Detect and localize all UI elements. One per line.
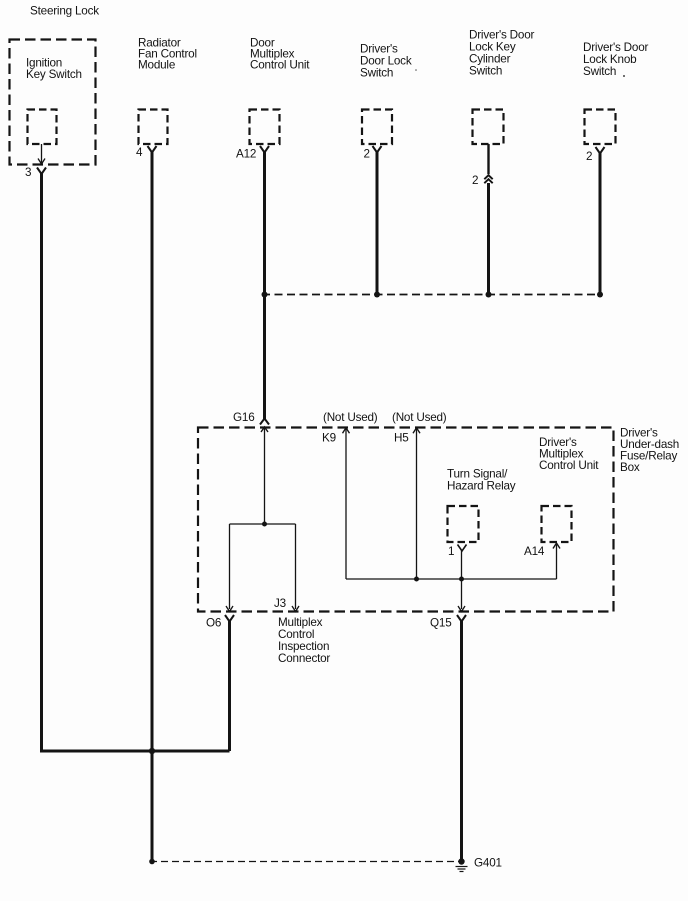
node junction radiator ground <box>149 859 155 865</box>
terminal fork at G16 <box>260 419 269 425</box>
wire Q15 down to ground <box>460 621 463 862</box>
svg-text:Module: Module <box>138 59 175 72</box>
ground G401 symbol <box>456 867 468 872</box>
connector door multiplex control unit <box>250 110 280 145</box>
connector driver's door lock switch <box>362 110 392 145</box>
wire K9 not used <box>343 428 350 579</box>
label Door Multiplex Control Unit <box>250 37 310 72</box>
wire radiator fan down <box>151 152 154 862</box>
node junction door lock switch bus <box>374 292 380 298</box>
connector driver's door lock knob switch <box>585 110 616 145</box>
svg-text:Switch: Switch <box>469 65 502 78</box>
label Driver's Door Lock Knob Switch <box>583 41 649 78</box>
pin J3 <box>274 597 286 610</box>
wire ignition down <box>40 173 43 753</box>
connector turn signal/hazard relay <box>448 506 479 542</box>
terminal fork Q15 <box>457 615 466 622</box>
svg-text:3: 3 <box>25 166 31 179</box>
pin 2 knob switch <box>586 150 592 163</box>
svg-text:2: 2 <box>472 174 478 187</box>
arrow into A14 <box>553 543 560 549</box>
svg-text:1: 1 <box>448 545 454 558</box>
wire door lock switch down <box>376 152 379 295</box>
svg-text:K9: K9 <box>322 432 336 445</box>
pin K9 <box>322 432 336 445</box>
pin Q15 <box>430 617 452 630</box>
node junction knob switch bus <box>597 292 603 298</box>
terminal fork pin 4 <box>148 146 157 153</box>
pin 2 key cylinder <box>472 174 478 187</box>
wire ignition pin to box edge <box>38 144 45 164</box>
pin 2 door lock switch <box>364 148 370 161</box>
pin G16 <box>233 411 255 424</box>
svg-text:J3: J3 <box>274 597 286 610</box>
terminal fork knob switch <box>596 147 605 154</box>
pin 4 <box>136 146 143 159</box>
node junction relay/Q15 <box>459 577 464 582</box>
label Driver's Door Lock Key Cylinder Switch <box>469 29 535 78</box>
wire O6 down <box>228 621 231 752</box>
label Driver's Door Lock Switch <box>360 43 412 80</box>
label Driver's Multiplex Control Unit <box>539 436 599 472</box>
node junction key cylinder bus <box>486 292 492 298</box>
svg-text:Key Switch: Key Switch <box>26 68 82 81</box>
pin A14 <box>524 545 545 558</box>
label Radiator Fan Control Module <box>138 37 197 72</box>
label Steering Lock <box>30 4 99 17</box>
ignition key switch box <box>10 40 96 165</box>
svg-text:A12: A12 <box>236 148 256 161</box>
wire key cylinder upper <box>487 144 489 174</box>
node junction Q15 ground <box>458 858 464 864</box>
svg-text:O6: O6 <box>206 617 221 630</box>
node junction H5 <box>414 577 419 582</box>
speck after Switch col6 <box>623 75 625 77</box>
svg-text:2: 2 <box>364 148 370 161</box>
svg-text:Control Unit: Control Unit <box>539 459 599 472</box>
svg-text:(Not Used): (Not Used) <box>323 411 378 424</box>
svg-text:Switch: Switch <box>583 65 616 78</box>
svg-text:H5: H5 <box>394 432 409 445</box>
svg-text:Hazard Relay: Hazard Relay <box>447 480 516 493</box>
node junction radiator wire <box>149 748 155 754</box>
label (Not Used) H5 <box>392 411 447 424</box>
connector A14 multiplex control unit <box>542 506 572 542</box>
wire H5 not used <box>413 428 420 579</box>
pin O6 <box>206 617 221 630</box>
label Multiplex Control Inspection Connector <box>278 616 330 665</box>
connector driver's door lock key cylinder switch <box>473 110 504 145</box>
wire G16 to junction <box>264 429 266 525</box>
terminal fork pin A12 <box>260 146 269 153</box>
arrow G16 into box <box>261 427 268 432</box>
speck after Switch col4 <box>415 69 417 71</box>
wire to J3 <box>292 524 299 612</box>
wire dashed bus top <box>262 294 600 296</box>
svg-text:Steering Lock: Steering Lock <box>30 4 99 17</box>
connector ignition key switch <box>28 110 57 145</box>
terminal fork relay pin 1 <box>458 545 467 552</box>
terminal fork door lock switch <box>373 146 382 153</box>
wire thick horizontal join <box>40 750 230 753</box>
terminal fork pin 3 <box>37 168 46 175</box>
connector radiator fan control module <box>139 110 168 145</box>
label Driver's Under-dash Fuse/Relay Box <box>620 427 679 475</box>
node junction G16 branch <box>262 522 267 527</box>
svg-text:Q15: Q15 <box>430 617 452 630</box>
label Turn Signal/Hazard Relay <box>447 468 516 493</box>
wire inner horizontal O6-J3 <box>230 523 296 525</box>
label G401 <box>474 857 502 870</box>
svg-text:2: 2 <box>586 150 592 163</box>
pin 3 <box>25 166 31 179</box>
svg-text:4: 4 <box>136 146 143 159</box>
node junction A12 bus <box>262 292 268 298</box>
pin H5 <box>394 432 409 445</box>
svg-text:Connector: Connector <box>278 652 330 665</box>
wire relay pin1 down <box>458 550 465 612</box>
wire key cylinder down <box>487 183 490 295</box>
svg-text:(Not Used): (Not Used) <box>392 411 447 424</box>
under-dash fuse/relay box <box>198 428 614 612</box>
svg-text:G16: G16 <box>233 411 255 424</box>
wire door multiplex down to G16 <box>263 152 266 420</box>
svg-text:Control Unit: Control Unit <box>250 59 310 72</box>
wire dashed ground bus <box>150 861 461 863</box>
wire to O6 <box>226 524 233 612</box>
pin 1 relay <box>448 545 454 558</box>
svg-text:G401: G401 <box>474 857 502 870</box>
wire A14 down and across <box>346 545 557 580</box>
svg-text:Box: Box <box>620 461 640 474</box>
svg-text:A14: A14 <box>524 545 545 558</box>
inline connector chevrons key cylinder <box>484 175 492 183</box>
label Ignition Key Switch <box>26 57 82 82</box>
svg-text:Switch: Switch <box>360 67 393 80</box>
pin A12 <box>236 148 256 161</box>
wire knob switch down <box>599 153 602 295</box>
terminal fork O6 <box>225 615 234 622</box>
label (Not Used) K9 <box>323 411 378 424</box>
